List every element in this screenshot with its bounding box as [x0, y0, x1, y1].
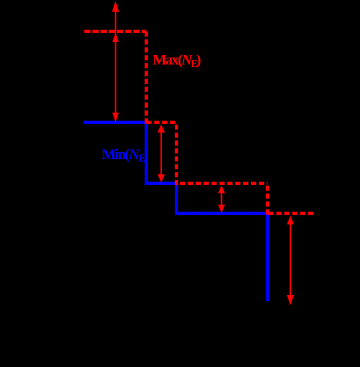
red dashed tread 2 — [146, 121, 176, 124]
red dashed riser 3 — [266, 183, 269, 214]
red dashed riser 1 — [145, 31, 148, 123]
arrow A1 (vertical, x=115.5, above & between top dashed level and blue level) — [112, 1, 119, 122]
red dashed riser 2 — [175, 122, 178, 185]
red dashed top tread — [84, 30, 146, 33]
blue solid staircase (Min envelope) — [83, 122, 267, 301]
red dashed tread 3 — [180, 182, 268, 185]
arrow A4 (vertical, x=290.4, from dashed level4 down to bottom step) — [287, 216, 294, 306]
arrow A3 (vertical, x=221.5, between dashed level3 and blue level4) — [218, 185, 225, 212]
arrow A2 (vertical, x=161.2, between dashed level2 and blue level3) — [158, 124, 165, 182]
red dashed bottom tread — [269, 212, 315, 215]
red dashed staircase (Max envelope), drawn per segment to match dash phase — [84, 31, 314, 214]
